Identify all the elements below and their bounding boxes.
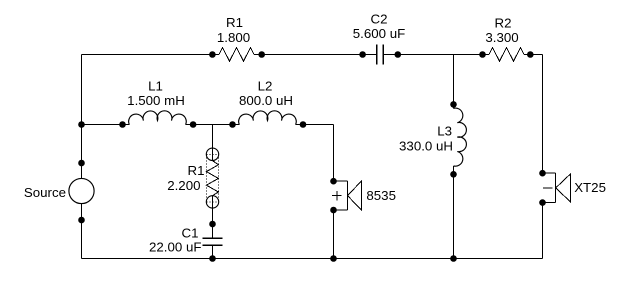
svg-text:5.600 uF: 5.600 uF xyxy=(353,26,406,41)
wire row2 left segment xyxy=(82,124,130,126)
resistor R2 zigzag xyxy=(489,48,524,62)
speaker U1 8535 top stub xyxy=(334,180,348,182)
capacitor C2 left plate xyxy=(376,44,378,64)
node dot L2 right xyxy=(300,121,307,128)
node dot R1 right xyxy=(258,51,265,58)
svg-text:C2: C2 xyxy=(371,12,388,27)
wire left vertical upper xyxy=(81,55,83,179)
svg-text:2.200: 2.200 xyxy=(167,178,200,193)
node dot L2 left xyxy=(229,121,236,128)
node dot above C1 xyxy=(209,221,216,228)
wire top rail middle segment xyxy=(254,54,377,56)
node dot R1 left xyxy=(209,51,216,58)
svg-text:XT25: XT25 xyxy=(574,180,606,195)
node dot C2 left xyxy=(359,51,366,58)
svg-text:8535: 8535 xyxy=(366,188,396,203)
wire top rail to right corner xyxy=(524,54,543,56)
capacitor C2 right plate xyxy=(382,44,384,64)
svg-text:1.800: 1.800 xyxy=(217,30,250,45)
node dot L1 left xyxy=(119,121,126,128)
resistor R1 (2.200) dotted outline box xyxy=(206,154,218,202)
svg-text:L1: L1 xyxy=(148,78,163,93)
svg-text:R1: R1 xyxy=(188,163,205,178)
speaker U2 XT25 bottom stub xyxy=(543,202,556,204)
wire from R1 (2.200) to C1 xyxy=(212,196,214,238)
resistor R1 (2.200) zigzag xyxy=(206,161,218,196)
resistor R1 (2.200) bottom terminal circle xyxy=(206,196,218,208)
speaker U2 XT25 top stub xyxy=(543,172,556,174)
node dot 8535 bottom xyxy=(330,207,337,214)
wire left vertical lower xyxy=(81,204,83,259)
node dot R2 left xyxy=(479,51,486,58)
node dot R2 right xyxy=(527,51,534,58)
node dot row2 left xyxy=(78,121,85,128)
resistor R1 zigzag xyxy=(219,48,254,62)
node dot XT25 bottom xyxy=(539,199,546,206)
source V1 circle xyxy=(69,178,94,203)
capacitor C1 bottom plate xyxy=(203,244,223,246)
resistor R1 (2.200) top terminal circle xyxy=(206,148,218,160)
capacitor C1 top plate xyxy=(203,237,223,239)
wire mid branch down xyxy=(212,125,214,161)
node dot C2 right xyxy=(395,51,402,58)
node dot below source xyxy=(78,217,85,224)
wire right vertical upper xyxy=(542,55,544,174)
svg-text:R1: R1 xyxy=(226,15,243,30)
inductor L1 humps xyxy=(129,111,187,125)
inductor L3 humps xyxy=(454,108,467,166)
wire 8535 to bottom rail xyxy=(333,210,335,259)
node dot C1 bottom rail xyxy=(209,255,216,262)
svg-text:800.0 uH: 800.0 uH xyxy=(239,93,293,108)
speaker U2 XT25 body edge xyxy=(555,173,557,202)
wire top rail left segment xyxy=(82,54,220,56)
svg-text:C1: C1 xyxy=(182,226,199,241)
svg-text:330.0 uH: 330.0 uH xyxy=(399,139,453,154)
node dot 8535 top xyxy=(330,178,337,185)
speaker U1 8535 body edge xyxy=(347,181,349,210)
speaker U1 8535 plus sign xyxy=(332,191,341,201)
svg-text:L2: L2 xyxy=(258,78,273,93)
wire right vertical lower xyxy=(542,203,544,259)
node dot 8535 bottom rail xyxy=(330,255,337,262)
node dot L3 top xyxy=(450,101,457,108)
node dot above source xyxy=(78,160,85,167)
speaker U1 8535 bottom stub xyxy=(334,209,348,211)
svg-text:1.500 mH: 1.500 mH xyxy=(127,93,185,108)
svg-text:R2: R2 xyxy=(495,16,512,31)
svg-text:Source: Source xyxy=(24,185,66,200)
svg-text:L3: L3 xyxy=(437,124,452,139)
svg-text:22.00 uF: 22.00 uF xyxy=(149,240,202,255)
speaker U2 XT25 cone triangle xyxy=(556,174,571,202)
wire row2 right segment to corner xyxy=(296,125,334,182)
speaker U2 XT25 minus sign xyxy=(543,187,552,189)
node dot L1 right xyxy=(190,121,197,128)
wire L3 branch lower xyxy=(453,166,455,259)
wire top rail right segment xyxy=(383,54,489,56)
wire bottom rail xyxy=(82,258,543,260)
speaker U1 8535 cone triangle xyxy=(348,181,362,210)
node dot L3 bottom rail xyxy=(450,255,457,262)
wire C1 to bottom rail xyxy=(212,245,214,258)
svg-text:3.300: 3.300 xyxy=(485,30,518,45)
wire row2 middle segment xyxy=(186,124,240,126)
node dot XT25 top xyxy=(539,170,546,177)
node dot L3 bottom xyxy=(450,171,457,178)
inductor L2 humps xyxy=(239,111,297,125)
wire L3 branch upper xyxy=(453,55,455,109)
